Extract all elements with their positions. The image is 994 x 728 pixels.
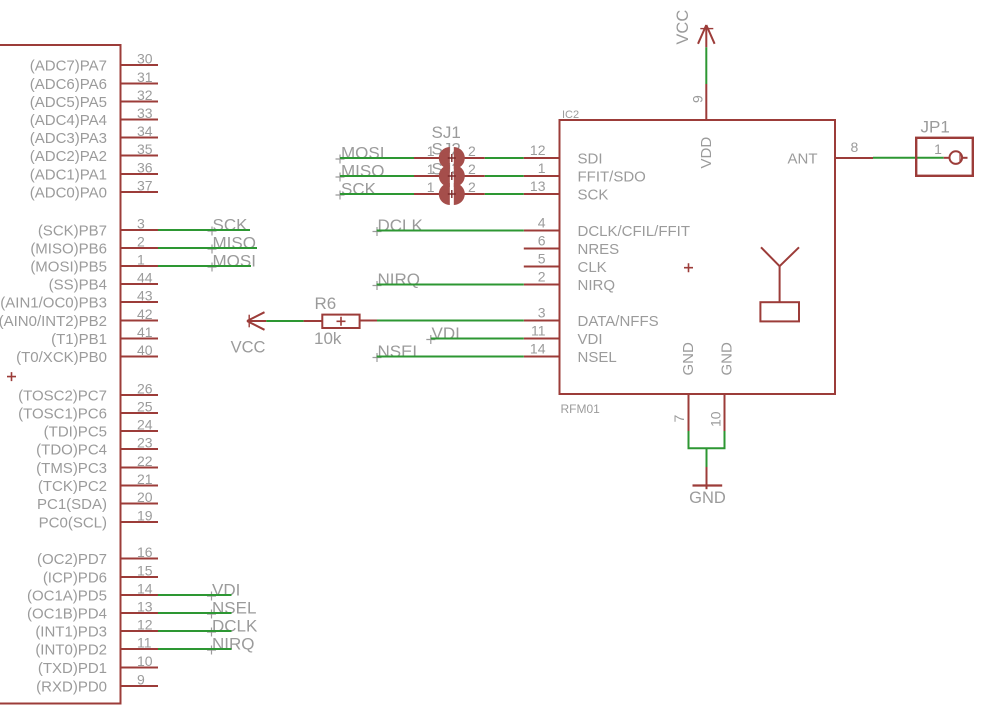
wire net DCLK to IC2 bbox=[377, 230, 524, 232]
IC1 pin 35 (ADC2)PA2 bbox=[30, 141, 158, 165]
svg-text:(ADC7)PA7: (ADC7)PA7 bbox=[30, 58, 107, 75]
net label DCLK bbox=[207, 617, 258, 637]
svg-text:6: 6 bbox=[538, 233, 546, 249]
IC1 pin 40 (T0/XCK)PB0 bbox=[16, 342, 158, 366]
svg-text:13: 13 bbox=[137, 599, 153, 615]
svg-text:DCLK: DCLK bbox=[212, 617, 258, 636]
svg-text:1: 1 bbox=[427, 161, 435, 177]
svg-text:(ICP)PD6: (ICP)PD6 bbox=[43, 570, 107, 587]
svg-text:2: 2 bbox=[538, 269, 546, 285]
net label VDI bbox=[207, 581, 240, 601]
svg-text:(TMS)PC3: (TMS)PC3 bbox=[36, 460, 107, 477]
wire net DCLK at PD bbox=[158, 630, 232, 632]
wire ANT to JP1 bbox=[873, 157, 944, 159]
wire VCC to R6 bbox=[247, 320, 266, 322]
svg-text:2: 2 bbox=[137, 234, 145, 250]
svg-text:(ADC3)PA3: (ADC3)PA3 bbox=[30, 130, 107, 147]
IC2 pin 9 VDD bbox=[690, 84, 715, 169]
IC2 pin 4 DCLK/CFIL/FFIT bbox=[524, 215, 690, 241]
net label MISO at SJ bbox=[336, 162, 385, 182]
IC1 pin 30 (ADC7)PA7 bbox=[30, 51, 158, 75]
svg-text:41: 41 bbox=[137, 324, 153, 340]
svg-text:NSEL: NSEL bbox=[378, 342, 422, 361]
IC1 pin 33 (ADC4)PA4 bbox=[30, 105, 158, 129]
svg-text:2: 2 bbox=[468, 161, 476, 177]
VCC supply symbol left bbox=[231, 312, 266, 356]
antenna symbol bbox=[760, 247, 799, 321]
svg-text:SCK: SCK bbox=[341, 180, 377, 199]
svg-text:(ADC6)PA6: (ADC6)PA6 bbox=[30, 76, 107, 93]
IC2 pin 7 GND bbox=[671, 342, 697, 431]
svg-text:GND: GND bbox=[718, 342, 735, 376]
wire R6 to IC2 DATA/NFFS bbox=[360, 320, 377, 322]
svg-text:34: 34 bbox=[137, 123, 153, 139]
IC1 pin 14 (OC1A)PD5 bbox=[27, 581, 158, 605]
IC1 pin 16 (OC2)PD7 bbox=[37, 544, 158, 568]
IC1 pin 44 (SS)PB4 bbox=[49, 270, 158, 294]
svg-text:ANT: ANT bbox=[788, 150, 818, 167]
svg-text:12: 12 bbox=[530, 142, 546, 158]
IC2 pin 10 GND bbox=[707, 342, 735, 431]
svg-text:NSEL: NSEL bbox=[212, 599, 256, 618]
svg-text:36: 36 bbox=[137, 160, 153, 176]
svg-text:(INT0)PD2: (INT0)PD2 bbox=[35, 642, 107, 659]
svg-text:(TDO)PC4: (TDO)PC4 bbox=[36, 442, 107, 459]
svg-text:PC0(SCL): PC0(SCL) bbox=[39, 515, 107, 532]
svg-text:(ADC1)PA1: (ADC1)PA1 bbox=[30, 167, 107, 184]
svg-text:FFIT/SDO: FFIT/SDO bbox=[578, 169, 646, 186]
svg-text:9: 9 bbox=[137, 672, 145, 688]
svg-text:10k: 10k bbox=[314, 329, 342, 348]
svg-text:(INT1)PD3: (INT1)PD3 bbox=[35, 624, 107, 641]
svg-text:20: 20 bbox=[137, 489, 153, 505]
net label NSEL bbox=[207, 599, 256, 619]
solder jumper SJ2 bbox=[414, 161, 476, 187]
wire net NSEL at PD bbox=[158, 612, 232, 614]
svg-text:11: 11 bbox=[531, 323, 546, 339]
microcontroller IC1 box bbox=[0, 45, 121, 704]
svg-text:14: 14 bbox=[137, 581, 153, 597]
net label VDI mid bbox=[426, 324, 460, 344]
svg-text:7: 7 bbox=[671, 415, 687, 423]
IC1 origin cross bbox=[7, 372, 16, 381]
svg-text:GND: GND bbox=[680, 342, 697, 376]
svg-text:NIRQ: NIRQ bbox=[212, 635, 255, 654]
IC2 pin 1 FFIT/SDO bbox=[524, 160, 646, 186]
svg-text:21: 21 bbox=[137, 471, 153, 487]
net label SCK at SJ bbox=[336, 180, 377, 200]
svg-text:VCC: VCC bbox=[231, 339, 266, 357]
IC2 pin 3 DATA/NFFS bbox=[524, 305, 659, 331]
svg-text:VDI: VDI bbox=[212, 581, 240, 600]
svg-text:(AIN1/OC0)PB3: (AIN1/OC0)PB3 bbox=[0, 295, 107, 312]
svg-text:(MOSI)PB5: (MOSI)PB5 bbox=[30, 259, 107, 276]
svg-text:SCK: SCK bbox=[213, 216, 249, 235]
net label MOSI at SJ bbox=[336, 144, 385, 164]
svg-text:DATA/NFFS: DATA/NFFS bbox=[578, 313, 659, 330]
svg-text:10: 10 bbox=[137, 653, 153, 669]
svg-text:1: 1 bbox=[538, 160, 546, 176]
svg-text:10: 10 bbox=[707, 411, 723, 427]
IC2 RFM01 box bbox=[560, 120, 836, 394]
IC1 pin 41 (T1)PB1 bbox=[51, 324, 158, 348]
wire net VDI at PD bbox=[158, 594, 232, 596]
wire GND pins to gnd symbol bbox=[688, 431, 726, 467]
IC1 pin 23 (TDO)PC4 bbox=[36, 435, 158, 459]
svg-text:44: 44 bbox=[137, 270, 153, 286]
IC1 pin 2 (MISO)PB6 bbox=[30, 234, 158, 258]
connector JP1 bbox=[916, 118, 973, 176]
IC2 origin cross bbox=[684, 263, 693, 272]
wire net MOSI SJ to IC2 bbox=[464, 157, 485, 159]
svg-text:11: 11 bbox=[137, 635, 152, 651]
IC1 pin 42 (AIN0/INT2)PB2 bbox=[0, 306, 158, 330]
IC1 pin 15 (ICP)PD6 bbox=[43, 563, 158, 587]
svg-text:(TOSC2)PC7: (TOSC2)PC7 bbox=[18, 388, 107, 405]
solder jumper SJ3 bbox=[414, 179, 476, 205]
svg-text:MISO: MISO bbox=[213, 234, 256, 253]
IC1 pin 21 (TCK)PC2 bbox=[38, 471, 158, 495]
svg-text:MOSI: MOSI bbox=[213, 252, 256, 271]
IC2 pin 11 VDI bbox=[524, 323, 603, 349]
wire net SCK SJ to IC2 bbox=[464, 193, 485, 195]
svg-text:(MISO)PB6: (MISO)PB6 bbox=[30, 241, 107, 258]
svg-text:4: 4 bbox=[538, 215, 546, 231]
IC1 pin 10 (TXD)PD1 bbox=[38, 653, 158, 677]
svg-text:R6: R6 bbox=[315, 294, 337, 313]
wire net VDI to IC2 bbox=[431, 338, 524, 340]
VCC supply symbol top bbox=[674, 10, 715, 45]
svg-text:15: 15 bbox=[137, 563, 153, 579]
svg-text:(T1)PB1: (T1)PB1 bbox=[51, 331, 107, 348]
svg-text:DCLK: DCLK bbox=[378, 216, 424, 235]
net label SCK bbox=[208, 216, 249, 236]
IC2 pin 12 SDI bbox=[524, 142, 603, 168]
wire net MOSI at PB bbox=[158, 265, 251, 267]
svg-text:IC2: IC2 bbox=[562, 109, 579, 121]
IC1 pin 43 (AIN1/OC0)PB3 bbox=[0, 288, 158, 312]
IC2 pin 14 NSEL bbox=[524, 341, 617, 367]
svg-text:31: 31 bbox=[137, 69, 153, 85]
resistor R6 bbox=[314, 294, 360, 348]
IC1 pin 3 (SCK)PB7 bbox=[38, 216, 158, 240]
svg-text:NRES: NRES bbox=[578, 241, 620, 258]
svg-text:CLK: CLK bbox=[578, 259, 607, 276]
svg-text:8: 8 bbox=[851, 139, 859, 155]
wire net SCK at PB bbox=[158, 229, 250, 231]
IC1 pin 1 (MOSI)PB5 bbox=[30, 252, 158, 276]
IC1 pin 37 (ADC0)PA0 bbox=[30, 178, 158, 202]
wire net NIRQ at PD bbox=[158, 648, 232, 650]
svg-text:(TCK)PC2: (TCK)PC2 bbox=[38, 478, 107, 495]
svg-text:24: 24 bbox=[137, 417, 153, 433]
svg-text:(TXD)PD1: (TXD)PD1 bbox=[38, 660, 107, 677]
svg-text:NIRQ: NIRQ bbox=[378, 270, 421, 289]
IC2 pin 2 NIRQ bbox=[524, 269, 615, 295]
IC2 pin 8 ANT bbox=[788, 139, 874, 167]
gnd symbol bbox=[689, 467, 726, 507]
svg-text:RFM01: RFM01 bbox=[561, 402, 601, 416]
IC1 pin 36 (ADC1)PA1 bbox=[30, 160, 158, 184]
IC2 pin 6 NRES bbox=[524, 233, 619, 259]
net label NIRQ mid bbox=[373, 270, 421, 290]
svg-text:(OC1B)PD4: (OC1B)PD4 bbox=[27, 606, 107, 623]
svg-text:5: 5 bbox=[538, 251, 546, 267]
IC1 pin 22 (TMS)PC3 bbox=[36, 453, 158, 477]
svg-text:PC1(SDA): PC1(SDA) bbox=[37, 496, 107, 513]
svg-text:MOSI: MOSI bbox=[341, 144, 384, 163]
IC1 pin 26 (TOSC2)PC7 bbox=[18, 381, 158, 405]
IC1 pin 9 (RXD)PD0 bbox=[36, 672, 158, 696]
svg-text:DCLK/CFIL/FFIT: DCLK/CFIL/FFIT bbox=[578, 223, 691, 240]
svg-text:(SCK)PB7: (SCK)PB7 bbox=[38, 223, 107, 240]
svg-text:33: 33 bbox=[137, 105, 153, 121]
svg-text:35: 35 bbox=[137, 141, 153, 157]
IC1 pin 13 (OC1B)PD4 bbox=[27, 599, 158, 623]
wire net MISO at PB bbox=[158, 247, 257, 249]
IC1 pin 11 (INT0)PD2 bbox=[35, 635, 158, 659]
svg-text:(OC1A)PD5: (OC1A)PD5 bbox=[27, 588, 107, 605]
net label NSEL mid bbox=[373, 342, 422, 362]
svg-text:9: 9 bbox=[690, 95, 706, 103]
svg-text:2: 2 bbox=[468, 143, 476, 159]
svg-text:43: 43 bbox=[137, 288, 153, 304]
svg-text:26: 26 bbox=[137, 381, 153, 397]
wire net MOSI to SJ bbox=[340, 157, 414, 159]
IC1 pin 12 (INT1)PD3 bbox=[35, 617, 158, 641]
svg-text:23: 23 bbox=[137, 435, 153, 451]
svg-text:25: 25 bbox=[137, 399, 153, 415]
svg-text:NSEL: NSEL bbox=[578, 349, 617, 366]
IC2 pin 5 CLK bbox=[524, 251, 607, 277]
svg-text:3: 3 bbox=[137, 216, 145, 232]
svg-text:(T0/XCK)PB0: (T0/XCK)PB0 bbox=[16, 349, 107, 366]
IC1 pin 24 (TDI)PC5 bbox=[44, 417, 158, 441]
svg-text:(ADC4)PA4: (ADC4)PA4 bbox=[30, 112, 107, 129]
net label DCLK mid bbox=[373, 216, 424, 236]
svg-text:14: 14 bbox=[530, 341, 546, 357]
IC1 pin 20 PC1(SDA) bbox=[37, 489, 158, 513]
svg-text:VDI: VDI bbox=[432, 324, 460, 343]
svg-text:MISO: MISO bbox=[341, 162, 384, 181]
wire net NSEL to IC2 bbox=[377, 356, 524, 358]
svg-text:12: 12 bbox=[137, 617, 153, 633]
net label MOSI bbox=[208, 252, 256, 272]
svg-text:22: 22 bbox=[137, 453, 153, 469]
svg-text:(ADC2)PA2: (ADC2)PA2 bbox=[30, 148, 107, 165]
wire net MISO to SJ bbox=[340, 175, 414, 177]
svg-text:(SS)PB4: (SS)PB4 bbox=[49, 277, 107, 294]
svg-text:(AIN0/INT2)PB2: (AIN0/INT2)PB2 bbox=[0, 313, 107, 330]
svg-text:30: 30 bbox=[137, 51, 153, 67]
svg-text:1: 1 bbox=[427, 143, 435, 159]
svg-text:2: 2 bbox=[468, 179, 476, 195]
solder jumper SJ1 bbox=[414, 143, 476, 169]
wire net NIRQ to IC2 bbox=[377, 284, 524, 286]
wire VCC to IC2 VDD bbox=[705, 25, 707, 47]
svg-text:NIRQ: NIRQ bbox=[578, 277, 616, 294]
IC1 pin 32 (ADC5)PA5 bbox=[30, 87, 158, 111]
svg-text:JP1: JP1 bbox=[921, 118, 950, 137]
IC1 pin 19 PC0(SCL) bbox=[39, 508, 158, 532]
svg-text:16: 16 bbox=[137, 544, 153, 560]
svg-text:1: 1 bbox=[427, 179, 435, 195]
wire net MISO SJ to IC2 bbox=[464, 175, 485, 177]
svg-text:SDI: SDI bbox=[578, 151, 603, 168]
svg-text:42: 42 bbox=[137, 306, 153, 322]
net label NIRQ bbox=[207, 635, 255, 655]
svg-text:(RXD)PD0: (RXD)PD0 bbox=[36, 679, 107, 696]
svg-text:3: 3 bbox=[538, 305, 546, 321]
svg-text:(TDI)PC5: (TDI)PC5 bbox=[44, 424, 107, 441]
IC2 pin 13 SCK bbox=[524, 178, 609, 204]
svg-text:32: 32 bbox=[137, 87, 153, 103]
svg-text:1: 1 bbox=[137, 252, 145, 268]
svg-text:VDI: VDI bbox=[578, 331, 603, 348]
IC1 pin 31 (ADC6)PA6 bbox=[30, 69, 158, 93]
net label MISO bbox=[208, 234, 256, 254]
wire net SCK to SJ bbox=[340, 193, 414, 195]
svg-text:37: 37 bbox=[137, 178, 153, 194]
svg-text:19: 19 bbox=[137, 508, 153, 524]
svg-text:13: 13 bbox=[530, 178, 546, 194]
svg-text:(ADC5)PA5: (ADC5)PA5 bbox=[30, 94, 107, 111]
svg-text:GND: GND bbox=[689, 489, 726, 507]
IC1 pin 25 (TOSC1)PC6 bbox=[18, 399, 158, 423]
svg-text:(TOSC1)PC6: (TOSC1)PC6 bbox=[18, 406, 107, 423]
IC1 pin 34 (ADC3)PA3 bbox=[30, 123, 158, 147]
svg-text:VCC: VCC bbox=[674, 10, 692, 45]
svg-text:40: 40 bbox=[137, 342, 153, 358]
svg-text:VDD: VDD bbox=[698, 137, 715, 169]
svg-text:(ADC0)PA0: (ADC0)PA0 bbox=[30, 185, 107, 202]
svg-text:1: 1 bbox=[934, 141, 942, 157]
svg-text:SCK: SCK bbox=[578, 187, 609, 204]
svg-text:(OC2)PD7: (OC2)PD7 bbox=[37, 551, 107, 568]
